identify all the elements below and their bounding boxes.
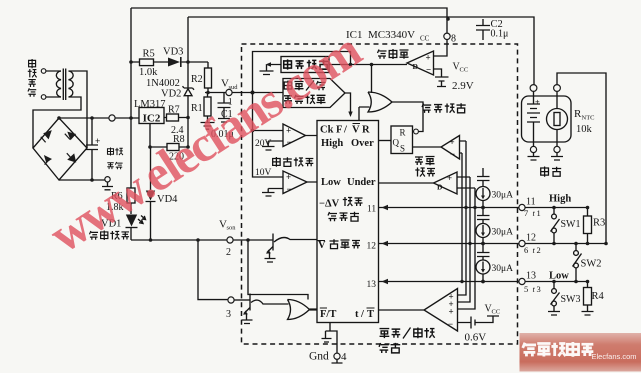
- svg-text:2: 2: [226, 247, 231, 258]
- svg-text:1: 1: [537, 208, 541, 218]
- svg-text:T: T: [367, 309, 374, 320]
- svg-text:CC: CC: [460, 67, 469, 74]
- svg-text:Q: Q: [393, 138, 400, 148]
- svg-text:CC: CC: [420, 35, 430, 43]
- svg-text:R7: R7: [168, 105, 180, 116]
- svg-text:2.9V: 2.9V: [452, 80, 474, 92]
- svg-text:0.1μ: 0.1μ: [491, 29, 509, 40]
- svg-text:+: +: [535, 98, 540, 107]
- svg-text:CC: CC: [492, 309, 501, 316]
- svg-text:30μA: 30μA: [492, 191, 514, 201]
- svg-text:11: 11: [526, 197, 536, 208]
- svg-text:SW2: SW2: [581, 259, 602, 270]
- svg-text:VD3: VD3: [163, 47, 183, 58]
- svg-text:6: 6: [524, 245, 528, 255]
- svg-text:R2: R2: [191, 74, 203, 85]
- svg-text:+: +: [447, 173, 452, 183]
- svg-text:Low: Low: [321, 177, 341, 188]
- svg-text:10V: 10V: [255, 168, 272, 178]
- svg-text:Gnd: Gnd: [309, 351, 329, 363]
- svg-text:VD2: VD2: [161, 89, 181, 100]
- svg-text:V: V: [318, 240, 326, 251]
- svg-text:Over: Over: [351, 138, 374, 149]
- svg-text:NTC: NTC: [582, 115, 595, 122]
- svg-text:7: 7: [524, 208, 528, 218]
- svg-text:10k: 10k: [576, 124, 593, 135]
- svg-text:1N4002: 1N4002: [146, 78, 180, 89]
- svg-text:−: −: [287, 184, 292, 194]
- svg-text:+: +: [450, 137, 455, 147]
- svg-text:11: 11: [367, 205, 376, 215]
- svg-text:R3: R3: [593, 218, 605, 229]
- svg-text:R5: R5: [143, 49, 155, 60]
- svg-text:V R: V R: [352, 125, 370, 136]
- svg-text:LM317: LM317: [134, 99, 166, 110]
- svg-text:−: −: [450, 149, 455, 159]
- svg-text:High: High: [321, 138, 343, 149]
- svg-text:SW1: SW1: [561, 219, 581, 230]
- svg-text:IC2: IC2: [143, 113, 161, 125]
- svg-text:4: 4: [341, 351, 347, 363]
- svg-text:son: son: [227, 225, 237, 232]
- svg-text:12: 12: [367, 242, 377, 252]
- svg-text:5: 5: [524, 284, 528, 294]
- svg-text:D: D: [413, 62, 419, 71]
- svg-text:Under: Under: [347, 177, 376, 188]
- svg-text:D: D: [437, 183, 443, 192]
- svg-text:R: R: [400, 128, 406, 138]
- svg-text:30μA: 30μA: [492, 264, 514, 274]
- svg-text:F/T: F/T: [320, 309, 336, 320]
- svg-text:+: +: [286, 126, 291, 136]
- svg-text:13: 13: [526, 271, 536, 282]
- svg-text:Ck F: Ck F: [320, 125, 342, 136]
- svg-text:S: S: [400, 144, 405, 154]
- svg-text:Low: Low: [549, 271, 569, 282]
- svg-text:−: −: [448, 319, 453, 329]
- svg-text:SW3: SW3: [561, 294, 581, 305]
- svg-text:12: 12: [526, 233, 536, 244]
- svg-text:+: +: [449, 307, 454, 317]
- svg-text:t: t: [355, 309, 359, 320]
- svg-text:−: −: [287, 137, 292, 147]
- svg-text:High: High: [549, 194, 571, 205]
- svg-text:−ΔV: −ΔV: [319, 199, 340, 210]
- svg-text:8: 8: [451, 34, 456, 45]
- svg-text:+: +: [95, 136, 100, 146]
- svg-text:2: 2: [537, 245, 541, 255]
- svg-text:+: +: [426, 53, 431, 63]
- svg-text:+: +: [286, 172, 291, 182]
- svg-text:13: 13: [367, 280, 377, 290]
- svg-text:3: 3: [226, 309, 231, 320]
- svg-text:0.6V: 0.6V: [465, 332, 487, 344]
- svg-text:−: −: [426, 65, 431, 75]
- svg-text:R4: R4: [592, 291, 605, 302]
- svg-text:30μA: 30μA: [492, 228, 514, 238]
- svg-text:IC1 MC3340V: IC1 MC3340V: [346, 29, 415, 41]
- svg-text:Elecfans.com: Elecfans.com: [592, 352, 637, 361]
- svg-text:3: 3: [537, 284, 541, 294]
- svg-text:1.0k: 1.0k: [139, 67, 158, 78]
